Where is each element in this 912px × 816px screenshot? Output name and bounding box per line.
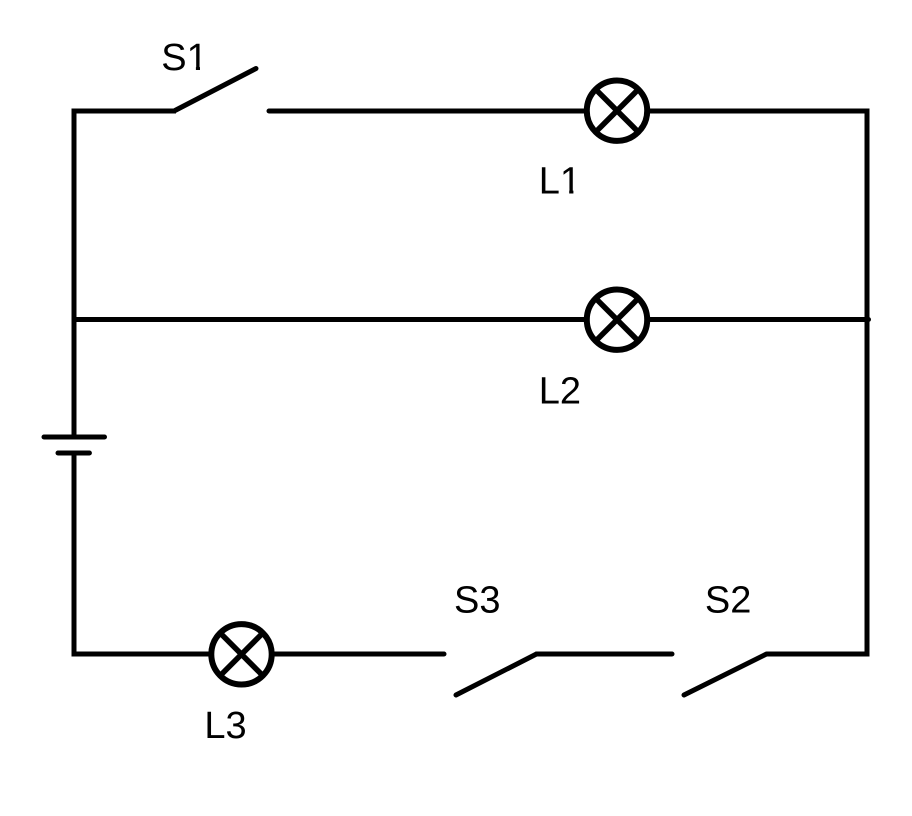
svg-text:L3: L3 xyxy=(204,705,246,747)
svg-text:S3: S3 xyxy=(454,580,500,622)
svg-text:S1: S1 xyxy=(161,37,207,79)
svg-text:S2: S2 xyxy=(705,580,751,622)
svg-text:L1: L1 xyxy=(539,161,581,203)
svg-text:L2: L2 xyxy=(539,371,581,413)
